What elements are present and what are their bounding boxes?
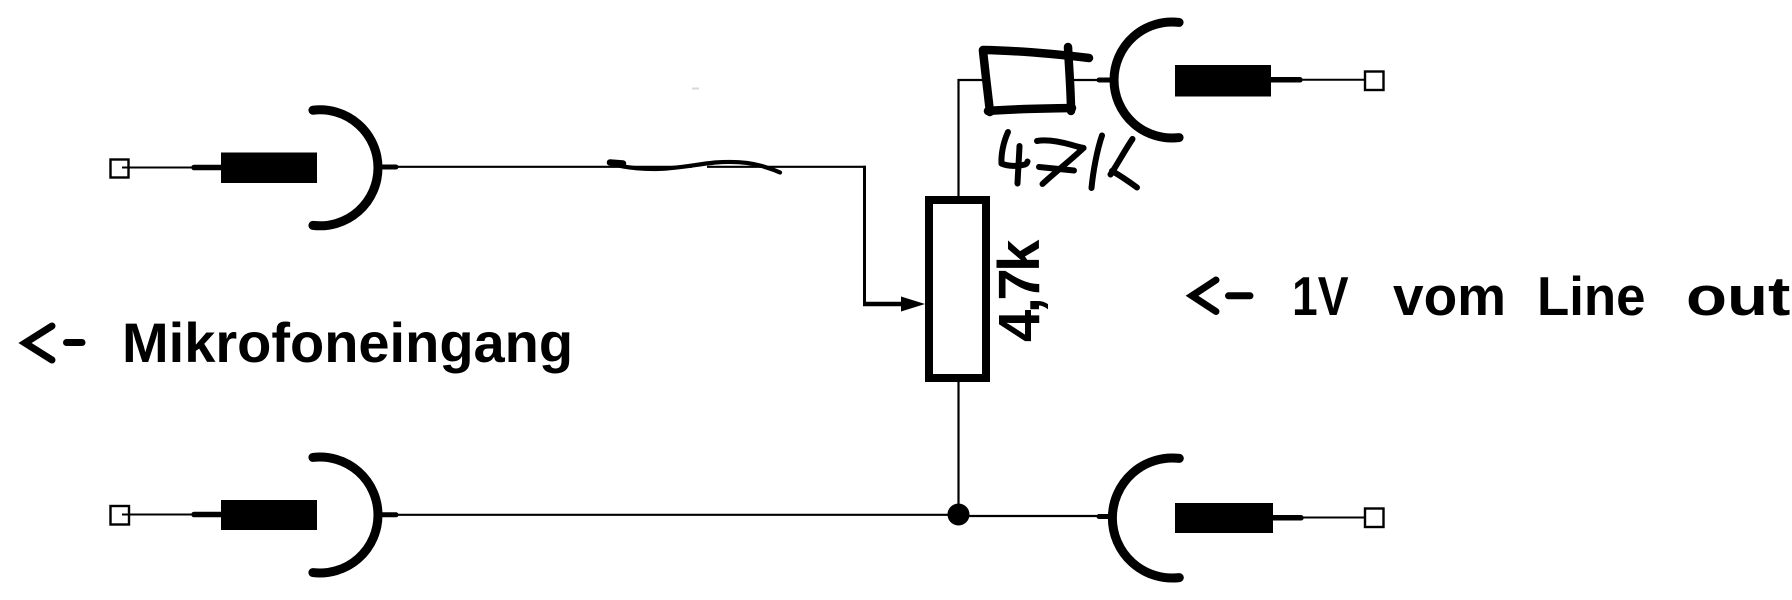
jack socket arc TR: [1114, 22, 1179, 138]
wire: top signal line: [394, 166, 692, 168]
socket contact tip TL: [378, 165, 396, 170]
terminal square TR: [1365, 72, 1384, 91]
jack socket arc TL: [313, 110, 378, 226]
arrow glyph left (<-): [25, 326, 82, 360]
potentiometer R1 body 4,7k: [929, 200, 986, 378]
label: Line: [1537, 264, 1646, 328]
terminal square BL (sleeve contact): [111, 506, 130, 525]
plug tip TL: [194, 165, 223, 171]
label: Mikrofoneingang text: [122, 310, 573, 375]
wiper arrow shaft: [863, 302, 906, 307]
jack socket arc BL: [313, 457, 378, 573]
terminal square BR: [1365, 509, 1384, 528]
socket contact tip BL: [378, 512, 396, 517]
terminal square TL (tip contact, mic plug left): [111, 160, 129, 178]
wire: pot bottom lead: [957, 380, 959, 515]
value label 47K (handwritten): [1001, 132, 1137, 188]
label: out: [1686, 264, 1790, 328]
faint smudge on paper: [692, 88, 699, 90]
plug tip BL: [194, 512, 223, 518]
wire: top lead to resistor: [958, 79, 984, 81]
label: 1V: [1292, 264, 1349, 328]
wire: pot top lead: [957, 79, 959, 197]
plug body TL (black): [221, 153, 317, 184]
plug body BR (black): [1175, 503, 1273, 533]
plug tip TR: [1270, 77, 1300, 83]
node: junction dot: [948, 504, 970, 526]
wire BL square to plug: [122, 514, 196, 516]
plug body TR (black): [1175, 65, 1271, 97]
wiper arrowhead: [901, 297, 925, 312]
plug body BL (black): [221, 500, 317, 530]
socket contact tip BR: [1099, 514, 1114, 519]
label: vom: [1393, 264, 1506, 328]
wire: bottom signal line left: [395, 514, 958, 516]
socket contact tip TR: [1099, 78, 1114, 83]
wire TL square to plug: [122, 167, 196, 169]
wire: bottom signal line right: [958, 515, 1102, 517]
resistor R2 47K (hand drawn box): [983, 47, 1089, 112]
freehand scribble over top wire: [609, 162, 780, 173]
wire: resistor to right socket: [1072, 79, 1102, 81]
wire: vertical drop to wiper: [863, 166, 866, 304]
jack socket arc BR: [1112, 458, 1179, 578]
arrow glyph right (<-): [1192, 280, 1250, 312]
wire BR plug to square: [1299, 517, 1373, 519]
wire TR plug to square: [1298, 79, 1373, 81]
plug tip BR: [1272, 515, 1301, 521]
value label 4,7k (rotated): [986, 243, 1053, 342]
